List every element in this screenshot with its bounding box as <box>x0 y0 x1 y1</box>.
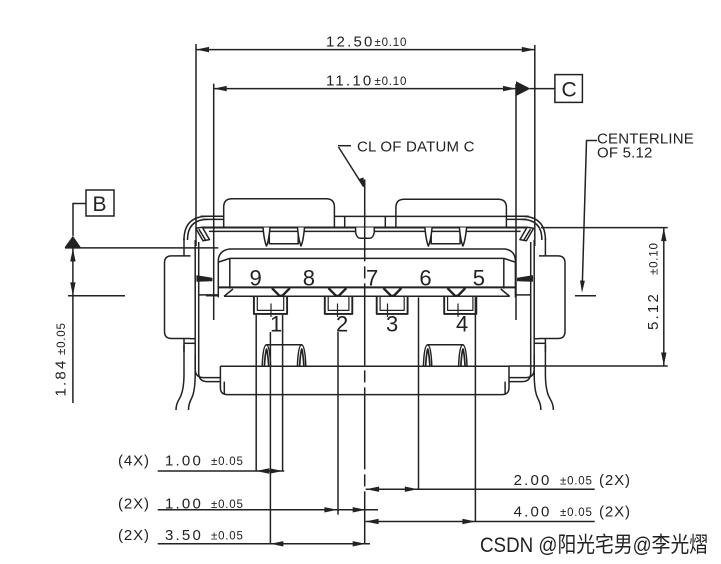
pin1 left edge extension line <box>255 315 257 471</box>
tongue root wedge left <box>197 276 212 282</box>
datum B leader <box>73 204 86 236</box>
svg-text:9: 9 <box>250 266 262 291</box>
leg left inner <box>189 354 196 410</box>
svg-text:B: B <box>93 193 107 216</box>
spring finger 4 <box>459 228 466 247</box>
pin 4 box <box>444 296 476 314</box>
dim row (4X) 1.00 text <box>118 453 244 470</box>
svg-text:6: 6 <box>419 266 431 291</box>
pin label 4 <box>456 304 468 337</box>
dimension 1.84 text <box>53 322 70 396</box>
pin label 1 <box>270 304 282 337</box>
svg-text:C: C <box>562 78 577 101</box>
spring finger 1 <box>263 228 270 247</box>
tongue face bottom line <box>218 286 515 288</box>
extension line right 12.50 <box>534 45 536 246</box>
side wing left <box>165 256 191 339</box>
tongue end cap left <box>229 258 231 288</box>
bevel notch pin3 <box>384 288 402 296</box>
svg-text:12.50: 12.50 <box>326 34 375 51</box>
dimension 12.50 text <box>326 34 407 51</box>
cavity wall left pair <box>195 240 220 382</box>
pin1 center extension line <box>269 332 271 544</box>
tongue face top line <box>219 258 515 262</box>
dim row 2.00 (2X) line <box>366 487 595 492</box>
5.12 bottom reference line <box>509 365 668 367</box>
window right <box>431 231 460 243</box>
dimension 12.50 line <box>196 47 535 52</box>
svg-text:±0.10: ±0.10 <box>375 37 408 49</box>
dim row 4.00 (2X) text <box>514 504 631 521</box>
svg-text:±0.05: ±0.05 <box>560 507 593 519</box>
tongue bevel bottom line <box>224 295 510 297</box>
dimension 5.12 text <box>645 242 662 330</box>
svg-text:±0.05: ±0.05 <box>211 531 244 543</box>
bottom spring tab left <box>262 345 306 367</box>
extension line left 11.10 <box>213 84 215 320</box>
pin 3 box <box>377 296 408 314</box>
svg-text:2.00: 2.00 <box>514 472 552 489</box>
svg-text:8: 8 <box>303 266 315 291</box>
datum C leader <box>530 88 555 90</box>
leg right outer <box>545 345 553 410</box>
datum C box <box>555 75 583 103</box>
CENTERLINE leader <box>575 141 597 296</box>
svg-text:OF 5.12: OF 5.12 <box>597 145 653 162</box>
datum C arrow triangle <box>516 81 531 96</box>
cavity top band lines <box>203 228 528 232</box>
svg-text:4.00: 4.00 <box>514 504 552 521</box>
bevel notch pin1 <box>272 288 290 296</box>
svg-text:4: 4 <box>456 312 468 337</box>
leg right inner <box>534 354 541 410</box>
dim row 4.00 (2X) line <box>366 519 595 524</box>
contact6 extension line <box>418 277 420 489</box>
leg left outer <box>176 345 184 410</box>
tongue body <box>218 249 515 297</box>
bottom spring tab right <box>423 345 467 367</box>
tongue root wedge right <box>517 276 532 282</box>
CL OF DATUM C leader <box>338 146 365 190</box>
svg-text:3.50: 3.50 <box>165 527 203 544</box>
shell top bump left <box>224 199 335 228</box>
dim row (2X) 1.00 text <box>118 496 244 513</box>
svg-text:±0.05: ±0.05 <box>211 456 244 468</box>
contact5 extension line <box>474 277 476 522</box>
svg-text:(2X): (2X) <box>599 472 631 489</box>
svg-text:1: 1 <box>270 312 282 337</box>
spring finger 2 <box>298 228 305 247</box>
svg-text:3: 3 <box>386 312 398 337</box>
shell top edge segment center gap <box>334 216 506 226</box>
bevel notch pin4 <box>448 288 466 296</box>
dim row (2X) 1.00 line <box>158 507 378 512</box>
svg-text:±0.05: ±0.05 <box>560 476 593 488</box>
tongue root line right <box>515 294 530 296</box>
CENTERLINE OF 5.12 text <box>597 131 694 162</box>
bevel notch pin2 <box>329 288 347 296</box>
shell top edge segment left gap <box>201 216 224 219</box>
svg-text:±0.10: ±0.10 <box>649 242 661 275</box>
svg-text:(2X): (2X) <box>118 527 150 544</box>
datum B box <box>86 190 114 216</box>
tongue root line left <box>199 294 219 296</box>
svg-text:(2X): (2X) <box>599 504 631 521</box>
datum B horizontal line <box>65 247 218 249</box>
pin 1 box <box>254 296 287 314</box>
dim row (2X) 3.50 text <box>118 527 244 544</box>
pin 2 box <box>325 296 353 314</box>
extension line right 11.10 <box>515 84 517 320</box>
shell outer side right <box>544 238 546 352</box>
dim row (4X) 1.00 line <box>158 468 285 473</box>
shell top edge segment right gap <box>506 216 528 219</box>
band chamfer right <box>520 227 534 240</box>
spring finger 3 <box>425 228 432 247</box>
shell top-right corner arcs <box>522 216 546 240</box>
svg-text:5: 5 <box>473 266 485 291</box>
extension line left 12.50 <box>195 44 197 246</box>
5.12 top reference line <box>541 227 668 229</box>
bevel end slant left <box>224 289 233 296</box>
svg-text:1.84: 1.84 <box>53 359 70 397</box>
dimension 1.84 vertical line <box>70 248 75 404</box>
pin label 3 <box>386 304 398 337</box>
window left <box>269 231 298 243</box>
svg-text:11.10: 11.10 <box>326 73 373 90</box>
svg-text:(2X): (2X) <box>118 496 150 513</box>
bottom plate <box>220 366 509 394</box>
center notch <box>356 228 375 239</box>
cavity wall right pair <box>509 240 534 382</box>
svg-text:±0.05: ±0.05 <box>56 322 68 355</box>
svg-text:±0.10: ±0.10 <box>375 76 408 88</box>
svg-text:2: 2 <box>336 312 348 337</box>
pin1 right edge extension line <box>282 315 284 471</box>
dim row 2.00 (2X) text <box>514 472 631 489</box>
pin2 center extension line <box>337 332 339 515</box>
shell side step right <box>534 339 545 344</box>
dimension 11.10 text <box>326 73 407 90</box>
dimension 5.12 vertical line <box>661 228 666 365</box>
bevel end slant right <box>501 289 510 296</box>
svg-text:(4X): (4X) <box>118 453 150 470</box>
shell top bump right <box>396 199 507 227</box>
svg-text:5.12: 5.12 <box>645 292 662 330</box>
svg-text:1.00: 1.00 <box>165 453 203 470</box>
dim row (2X) 3.50 line <box>158 541 370 546</box>
svg-text:7: 7 <box>366 266 378 291</box>
svg-text:CSDN @阳光宅男@李光熠: CSDN @阳光宅男@李光熠 <box>480 533 708 557</box>
shell top-left corner arcs <box>184 216 208 240</box>
center level reference line left <box>68 295 218 297</box>
band chamfer left <box>196 227 210 240</box>
shell side step left <box>184 339 195 344</box>
datum B filled triangle <box>65 236 81 248</box>
shell outer side left <box>183 238 185 352</box>
tongue end cap right <box>503 258 505 288</box>
side wing right <box>539 256 565 339</box>
pin label 2 <box>336 304 348 337</box>
centerline of datum C vertical <box>364 179 366 543</box>
svg-text:CL OF DATUM C: CL OF DATUM C <box>357 139 475 156</box>
dimension 11.10 line <box>214 86 516 91</box>
